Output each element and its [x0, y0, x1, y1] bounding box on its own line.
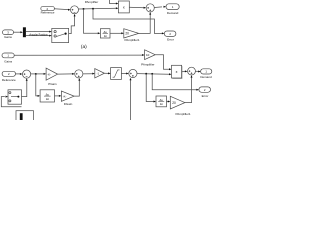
- switch block (a): [52, 28, 69, 42]
- long wire gains to amplifier (b): [14, 54, 143, 56]
- arrowhead up into sum b3 bottom: [130, 78, 132, 81]
- wire demux upper out to switch: [26, 31, 50, 33]
- arrowhead up into sum b1 bottom: [26, 78, 28, 81]
- wire product to sum2: [129, 6, 144, 8]
- svg-text:-K-: -K-: [47, 72, 51, 76]
- wire branch C down to derivative (b right): [146, 74, 154, 102]
- arrowhead up into sum b2 bottom: [78, 78, 80, 81]
- wire PAmplifier1 up to sum b4 bottom: [185, 76, 192, 102]
- wire derivative to PAmplifier1 (b): [167, 101, 169, 103]
- switch block (b): [8, 90, 22, 104]
- inport oval 1 Gains (b): [2, 53, 14, 64]
- wire sum b1 branch down to derivative b1: [36, 74, 39, 96]
- svg-text:x: x: [123, 5, 125, 9]
- wire sum b1 to PGain: [31, 73, 45, 75]
- product block x (a): [118, 1, 129, 13]
- svg-text:Reference: Reference: [41, 11, 55, 15]
- wire switch b out up to sum b1 bottom: [22, 80, 27, 97]
- wire branch A down to derivative block (a): [84, 9, 99, 33]
- svg-text:PAmplifier: PAmplifier: [141, 62, 154, 66]
- arrowhead into product lower (b): [169, 73, 172, 75]
- svg-text:Demand: Demand: [200, 75, 212, 79]
- arrowhead into PAmplifier1 (b): [168, 101, 171, 103]
- gain PAmplifier1 triangle 20 (a): [124, 29, 140, 43]
- wire feedback up into sum b3 bottom: [130, 79, 132, 120]
- gain DGain triangle (b): [61, 91, 74, 106]
- wire sum b3 to product (b): [137, 73, 170, 76]
- inport oval 2 Reference (b): [2, 71, 16, 82]
- sum junction S2 (a): [146, 4, 154, 12]
- wire from top edge into product top input: [110, 0, 117, 4]
- arrowhead up into sum1 bottom: [74, 14, 76, 17]
- saturation block (b): [111, 68, 122, 80]
- wire derivative to gain 20 (a): [110, 32, 122, 34]
- wire sum b4 to demand (b): [195, 70, 198, 72]
- sum junction B2: [75, 70, 83, 78]
- svg-text:DGain: DGain: [64, 102, 73, 106]
- gain PAmplifier triangle 10 (b): [141, 50, 155, 67]
- arrowhead into demux: [20, 31, 23, 33]
- cropped block bottom left: [16, 111, 34, 122]
- arrowhead into PGain: [44, 73, 47, 75]
- wire switch out up to sum1 bottom: [69, 15, 75, 33]
- arrowhead into sum1: [68, 9, 71, 11]
- svg-text:-1: -1: [97, 72, 100, 76]
- arrowhead into product top input: [116, 3, 119, 5]
- wire PGain to sum b2: [58, 73, 73, 75]
- wire branch D to error (b): [152, 74, 197, 90]
- arrowhead into sum b2: [72, 73, 75, 75]
- outport oval 2 Error (b): [199, 87, 211, 98]
- arrowhead up into sum b4 bottom: [191, 75, 193, 78]
- arrowhead into sum b1: [20, 73, 23, 75]
- wire amplifier down to product upper input (b): [155, 55, 169, 69]
- svg-text:(a): (a): [81, 44, 87, 50]
- arrowhead into derivative (a): [98, 32, 101, 34]
- arrowhead into gain PAmplifier1 (a): [121, 32, 124, 34]
- arrowhead lower into switch: [49, 35, 52, 37]
- arrowhead into switch b: [6, 96, 9, 98]
- svg-text:PGain: PGain: [48, 82, 57, 86]
- svg-text:Δt: Δt: [46, 97, 49, 101]
- node dot B (a): [92, 8, 94, 10]
- derivative block (b right): [156, 96, 167, 107]
- wire product to sum b4: [182, 71, 186, 73]
- wire sum1 to product lower input: [79, 7, 117, 10]
- arrowhead upper into switch: [49, 31, 52, 33]
- wire triangle to saturation: [104, 72, 108, 74]
- gain PAmplifier1 triangle (b): [170, 96, 191, 116]
- wire sum b2 to triangle gain: [83, 73, 93, 75]
- arrowhead into saturation: [108, 72, 111, 74]
- arrowhead into Error oval (a): [162, 32, 165, 34]
- arrowhead into amplifier (b): [142, 54, 145, 56]
- arrowhead up into sum2: [149, 12, 151, 15]
- arrowhead into triangle (b2): [92, 73, 95, 75]
- wire reference to sum b1: [15, 73, 20, 75]
- svg-text:PAmplifier: PAmplifier: [85, 0, 98, 4]
- node dot C (b): [145, 73, 147, 75]
- outport oval 1 Demand (b): [200, 69, 212, 79]
- svg-text:Reference: Reference: [2, 78, 16, 82]
- wire sum2 to demand: [154, 6, 162, 9]
- inport oval 3 Gains (a): [3, 30, 14, 39]
- svg-text:-K-: -K-: [63, 94, 67, 98]
- svg-text:Gains: Gains: [4, 60, 12, 64]
- arrowhead into sum2 left: [144, 7, 147, 9]
- wire derivative b1 to DGain: [55, 95, 60, 97]
- svg-text:PAmplifier1: PAmplifier1: [175, 112, 190, 116]
- derivative block (a): [100, 29, 110, 38]
- arrowhead into sum b4: [185, 70, 188, 72]
- product block x (b): [172, 65, 183, 78]
- wire reference to sum1: [54, 8, 69, 11]
- wire feedback into switch b input: [1, 97, 21, 107]
- node dot on sum b1 output: [35, 73, 37, 75]
- wire DGain up to sum b2 bottom: [74, 80, 79, 97]
- wire saturation to sum b3: [121, 73, 126, 75]
- svg-text:20: 20: [125, 32, 129, 36]
- svg-text:Error: Error: [202, 94, 209, 98]
- node dot D (b): [151, 73, 153, 75]
- svg-text:Δu: Δu: [45, 92, 49, 96]
- arrowhead into sum b3: [126, 73, 129, 75]
- arrowhead into Demand oval (b): [198, 71, 201, 73]
- svg-text:Error: Error: [167, 38, 174, 42]
- svg-text:Δt: Δt: [104, 34, 107, 38]
- wire gains to demux: [13, 31, 21, 33]
- outport oval 2 Error (a): [164, 31, 176, 42]
- wire gain20 up to sum2 bottom: [139, 14, 150, 34]
- svg-text:‹Angular Position›: ‹Angular Position›: [29, 33, 49, 36]
- arrowhead into product upper (b): [169, 68, 172, 70]
- svg-text:Δt: Δt: [160, 102, 163, 106]
- svg-text:10: 10: [146, 53, 150, 57]
- svg-text:Demand: Demand: [167, 11, 179, 15]
- sum junction B4: [188, 67, 196, 75]
- arrowhead into DGain: [59, 95, 62, 97]
- arrowhead into product lower input: [116, 7, 119, 9]
- wire demux lower out to switch: [26, 35, 50, 37]
- demux black bar (a): [23, 27, 26, 37]
- sum junction B1: [23, 70, 31, 78]
- arrowhead into Error oval (b): [196, 89, 199, 91]
- arrowhead into derivative b1: [38, 95, 41, 97]
- arrowhead into Demand oval (a): [164, 6, 167, 8]
- svg-text:x: x: [176, 70, 178, 74]
- svg-text:20: 20: [172, 101, 176, 105]
- gain PGain triangle (b): [46, 68, 58, 86]
- demux black bar (bottom): [20, 113, 23, 121]
- wire branch B to error port (a): [93, 9, 162, 34]
- derivative block (b left): [40, 90, 54, 102]
- svg-text:Gains: Gains: [4, 35, 12, 39]
- sum junction B3: [129, 69, 137, 77]
- gain triangle 1 (b): [95, 69, 105, 78]
- node dot A (a): [83, 8, 85, 10]
- svg-text:PAmplifier1: PAmplifier1: [124, 38, 139, 42]
- inport oval 2 Reference (a): [41, 6, 55, 14]
- sum junction S1 (a): [71, 6, 79, 14]
- arrowhead into derivative b2: [154, 101, 157, 103]
- outport oval 1 Demand (a): [166, 4, 179, 15]
